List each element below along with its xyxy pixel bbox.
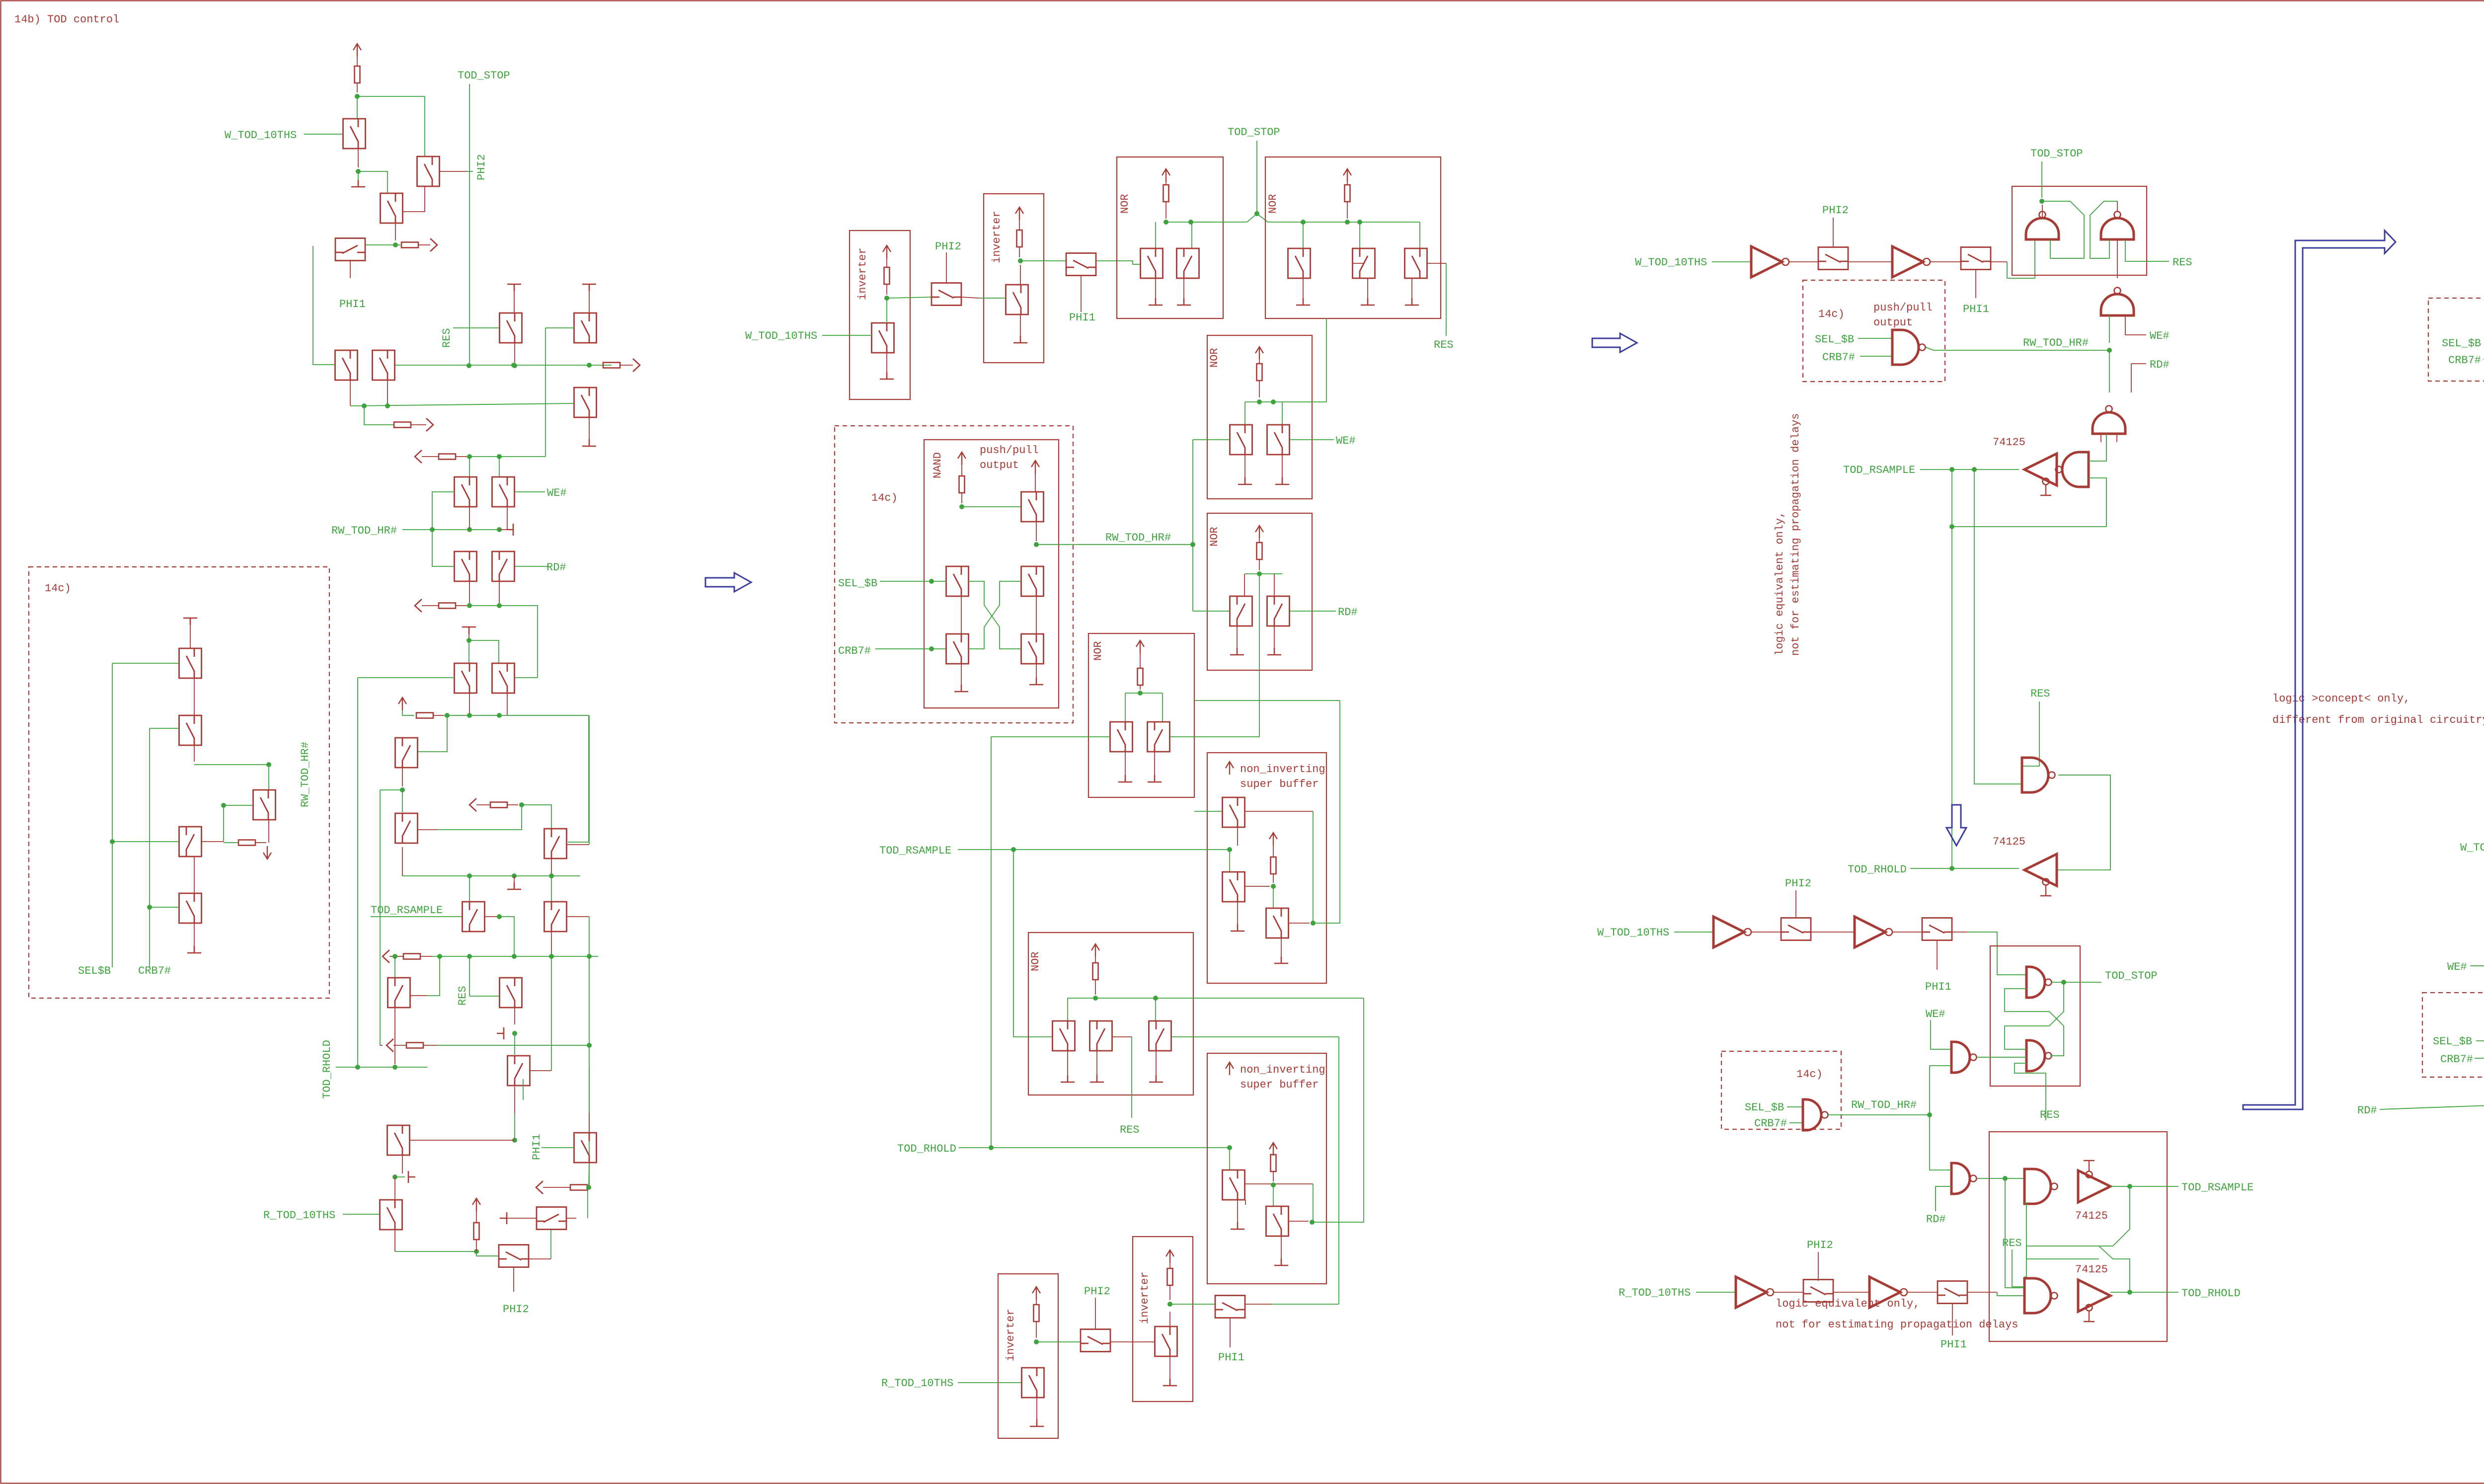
svg-text:PHI2: PHI2 xyxy=(1785,877,1811,890)
junction xyxy=(1949,524,1954,529)
wire xyxy=(1789,1122,1803,1123)
wire xyxy=(1274,574,1275,596)
wire xyxy=(2089,434,2106,461)
wire xyxy=(1282,455,1283,477)
wire to RES xyxy=(1446,263,1447,336)
wire xyxy=(1789,261,1818,262)
wire xyxy=(1281,938,1282,956)
wire to Q18 xyxy=(418,715,447,752)
wire xyxy=(350,380,351,406)
svg-text:14c): 14c) xyxy=(1796,1068,1823,1081)
wire xyxy=(1019,247,1020,257)
transistor Q29 xyxy=(574,1133,597,1163)
wire xyxy=(194,745,195,762)
wire xyxy=(1169,1263,1170,1268)
svg-text:WE#: WE# xyxy=(547,487,567,499)
wire xyxy=(1229,850,1230,872)
wire xyxy=(1274,626,1275,649)
resistor R27 xyxy=(1271,857,1276,874)
svg-text:SEL_$B: SEL_$B xyxy=(2433,1035,2472,1048)
wire xyxy=(1169,1356,1170,1379)
transistor Q54 xyxy=(1141,248,1163,278)
wire xyxy=(1273,1172,1274,1181)
junction xyxy=(437,954,442,959)
svg-text:RES: RES xyxy=(2002,1237,2022,1250)
wire Q2 to Q3 xyxy=(402,186,425,212)
transistor Q12 xyxy=(492,477,515,507)
svg-text:PHI2: PHI2 xyxy=(1084,1285,1110,1298)
wire TOD_RHOLD vertical xyxy=(991,737,992,1148)
wire xyxy=(1774,1292,1803,1293)
wire xyxy=(467,171,473,172)
wire Q2 gate xyxy=(440,171,467,172)
wire xyxy=(468,634,469,640)
transistor Q57 xyxy=(1353,248,1375,278)
off-page arrow xyxy=(536,1181,543,1194)
wire xyxy=(1930,1115,1951,1170)
wire xyxy=(2042,205,2043,217)
VDD pull-up arrow xyxy=(1226,762,1234,775)
svg-text:TOD_RHOLD: TOD_RHOLD xyxy=(321,1040,333,1099)
wire TOD_RSAMPLE xyxy=(1920,469,2019,470)
svg-text:not for estimating propagation: not for estimating propagation delays xyxy=(1789,413,1802,656)
wire xyxy=(1303,278,1304,298)
wire xyxy=(2117,201,2118,212)
junction xyxy=(512,873,517,878)
ground xyxy=(1296,298,1310,305)
wire xyxy=(1125,752,1126,775)
junction xyxy=(1138,691,1143,696)
junction xyxy=(549,954,554,959)
wire Q21 out xyxy=(567,844,589,845)
transistor Q94 PHI2 pass xyxy=(1781,918,1811,940)
wire xyxy=(961,465,962,476)
wire W_TOD_10THS to Q50 gate xyxy=(822,335,872,336)
svg-text:NOR: NOR xyxy=(1119,194,1131,214)
wire xyxy=(358,149,359,167)
svg-text:RW_TOD_HR#: RW_TOD_HR# xyxy=(331,525,397,537)
wire xyxy=(1259,559,1260,570)
svg-text:R_TOD_10THS: R_TOD_10THS xyxy=(263,1209,335,1222)
wire xyxy=(507,1218,537,1219)
junction xyxy=(512,954,517,959)
wire xyxy=(1095,957,1096,963)
wire xyxy=(1166,222,1222,223)
dashed box 14c xyxy=(29,567,329,998)
wire xyxy=(1067,998,1068,1021)
flow arrow down xyxy=(1946,805,1966,846)
wire xyxy=(1245,401,1326,402)
svg-text:TOD_RHOLD: TOD_RHOLD xyxy=(1848,863,1907,876)
wire xyxy=(545,328,546,457)
wire xyxy=(469,956,470,996)
svg-text:RES: RES xyxy=(457,986,469,1006)
terminator bar xyxy=(500,1212,507,1224)
wire CRB7# to Q66 gate xyxy=(875,648,946,649)
svg-text:super buffer: super buffer xyxy=(1240,778,1319,790)
wire xyxy=(1281,1236,1282,1258)
junction xyxy=(497,914,502,919)
junction xyxy=(1949,467,1954,472)
wire xyxy=(551,956,552,1071)
transistor Q21 xyxy=(544,829,567,859)
resistor R23 xyxy=(1345,185,1350,202)
NAND gate U16 xyxy=(2026,967,2052,998)
transistor Q16 xyxy=(455,663,477,693)
transistor Q13 xyxy=(455,551,477,581)
junction xyxy=(1301,220,1306,225)
wire xyxy=(1347,202,1348,219)
wire xyxy=(514,1087,515,1113)
wire down to NOR4 xyxy=(1013,850,1052,1037)
wire xyxy=(1272,1304,1339,1305)
wire xyxy=(2484,359,2484,360)
VDD pull-up arrow xyxy=(1162,169,1170,182)
resistor R21 xyxy=(1017,230,1022,247)
wire xyxy=(1095,1298,1096,1329)
wire vertical xyxy=(380,790,381,1045)
VDD pull-up arrow xyxy=(1255,347,1263,360)
NAND block box xyxy=(924,440,1059,708)
wire xyxy=(433,715,444,716)
transistor Q45 xyxy=(179,893,202,923)
wire buffer2 output xyxy=(1312,1222,1364,1223)
wire into latch xyxy=(2007,239,2035,278)
resistor R9 xyxy=(403,954,420,959)
svg-text:14c): 14c) xyxy=(45,582,71,595)
NAND gate U7b xyxy=(1803,1099,1828,1130)
wire cross xyxy=(2099,1246,2130,1292)
wire xyxy=(357,96,358,119)
wire cross couple xyxy=(2024,1186,2130,1277)
svg-text:R_TOD_10THS: R_TOD_10THS xyxy=(881,1377,953,1390)
wire xyxy=(427,956,440,996)
off-page arrow xyxy=(469,798,476,811)
NOR block box RD xyxy=(1207,513,1312,670)
wire xyxy=(1290,611,1336,612)
junction xyxy=(393,242,398,247)
resistor R2 xyxy=(401,242,418,248)
wire xyxy=(620,365,633,366)
junction xyxy=(392,1065,397,1070)
svg-text:RD#: RD# xyxy=(2150,359,2170,371)
off-page arrow xyxy=(383,950,389,963)
junction xyxy=(467,954,472,959)
resistor R1 xyxy=(355,66,360,83)
wire xyxy=(1095,980,1096,995)
wire xyxy=(422,456,439,457)
svg-text:non_inverting: non_inverting xyxy=(1240,1064,1325,1076)
VDD pull-up arrow xyxy=(1166,1250,1174,1263)
wire xyxy=(194,678,195,715)
transistor Q25 xyxy=(380,1200,402,1230)
wire row xyxy=(402,875,580,876)
svg-text:RD#: RD# xyxy=(1338,606,1358,619)
SR latch box xyxy=(1989,1132,2167,1341)
junction xyxy=(1164,220,1168,225)
wire xyxy=(499,581,500,606)
wire cross xyxy=(968,581,1021,649)
svg-text:TOD_STOP: TOD_STOP xyxy=(458,70,510,82)
wire to Q16 gate xyxy=(358,677,455,678)
transistor Q81 PHI1 pass xyxy=(1215,1296,1245,1318)
VDD pull-up arrow xyxy=(1226,1062,1234,1075)
wire xyxy=(567,1218,576,1219)
svg-text:logic >concept< only,: logic >concept< only, xyxy=(2272,693,2410,705)
wire xyxy=(469,581,470,606)
wire xyxy=(456,456,467,457)
inverter block box xyxy=(998,1274,1058,1438)
wire TOD_STOP xyxy=(2041,161,2042,198)
ground xyxy=(1118,775,1132,782)
wire Q4 to Q7 gate xyxy=(313,246,335,365)
ground xyxy=(1090,1075,1104,1082)
junction xyxy=(959,504,964,509)
wire xyxy=(437,1045,589,1046)
svg-text:RES: RES xyxy=(2040,1109,2060,1121)
svg-text:RD#: RD# xyxy=(2357,1104,2377,1117)
wire xyxy=(1125,693,1163,694)
resistor R22 xyxy=(1164,185,1169,202)
wire Q20 gate xyxy=(418,829,437,830)
wire xyxy=(1347,182,1348,185)
wire xyxy=(1273,874,1274,883)
wire xyxy=(1427,263,1446,264)
wire RES to Q5 gate xyxy=(453,327,499,328)
wire xyxy=(946,252,947,283)
wire xyxy=(543,1187,570,1188)
wire xyxy=(402,1155,403,1173)
junction xyxy=(266,762,271,767)
VDD pull-up arrow xyxy=(1269,1143,1277,1156)
flow arrow between columns xyxy=(1592,333,1637,352)
svg-text:NOR: NOR xyxy=(1208,348,1221,368)
wire xyxy=(522,805,551,830)
resistor R7 xyxy=(416,713,433,718)
wire xyxy=(1096,1051,1097,1075)
transistor Q55 xyxy=(1177,248,1199,278)
svg-text:R_TOD_10THS: R_TOD_10THS xyxy=(1619,1287,1691,1299)
NAND gate U4 xyxy=(2101,212,2134,240)
junction xyxy=(1310,1220,1315,1225)
resistor R31 xyxy=(1167,1268,1173,1285)
wire xyxy=(112,841,179,842)
junction xyxy=(884,296,889,301)
junction xyxy=(467,603,472,608)
ground xyxy=(1231,924,1244,931)
junction xyxy=(221,803,226,808)
svg-text:RD#: RD# xyxy=(1926,1213,1946,1226)
svg-text:PHI1: PHI1 xyxy=(1963,303,1989,315)
terminator bar xyxy=(408,1171,415,1183)
wire xyxy=(1036,1300,1037,1305)
wire xyxy=(514,1113,515,1140)
wire xyxy=(476,1211,477,1223)
svg-text:NAND: NAND xyxy=(931,452,944,478)
svg-text:output: output xyxy=(980,459,1019,471)
wire xyxy=(499,917,514,956)
wire xyxy=(456,605,467,606)
transistor Q63 xyxy=(1021,492,1044,522)
junction xyxy=(929,579,934,584)
ground xyxy=(1029,678,1043,685)
ground below Q10 xyxy=(582,439,596,446)
wire WE# xyxy=(1931,1020,1951,1049)
wire xyxy=(1937,940,1938,970)
wire xyxy=(514,1008,515,1024)
wire xyxy=(402,790,403,812)
dashed box 14c xyxy=(1803,280,1945,382)
wire xyxy=(1171,1036,1339,1037)
resistor R3 xyxy=(603,363,620,368)
transistor Q51 PHI2 pass xyxy=(931,283,961,306)
wire W_TOD_10THS to Q1 gate xyxy=(304,134,343,135)
VDD pull-up arrow xyxy=(1032,1287,1040,1300)
transistor Q31 xyxy=(500,978,522,1008)
NOR block box xyxy=(1088,633,1194,797)
ground xyxy=(1061,1075,1075,1082)
inverter block box xyxy=(984,194,1044,363)
svg-text:WE#: WE# xyxy=(2447,961,2467,973)
svg-text:PHI1: PHI1 xyxy=(1218,1351,1244,1364)
wire xyxy=(1191,222,1212,223)
wire TOD_RHOLD out xyxy=(2110,1292,2178,1293)
wire xyxy=(587,1187,589,1188)
wire xyxy=(194,764,269,765)
junction xyxy=(467,873,472,878)
svg-text:14c): 14c) xyxy=(1818,308,1845,320)
node A junction xyxy=(355,94,360,99)
wire xyxy=(194,923,195,946)
wire xyxy=(961,664,962,688)
wire xyxy=(469,640,499,663)
NAND gate U3 xyxy=(2026,212,2059,240)
wire xyxy=(1273,1185,1274,1207)
wire RW_TOD_HR# xyxy=(1934,350,2109,351)
junction xyxy=(1153,996,1158,1001)
wire xyxy=(1036,1341,1081,1342)
junction xyxy=(1271,399,1276,404)
svg-text:RES: RES xyxy=(2030,688,2050,700)
svg-text:PHI1: PHI1 xyxy=(339,298,366,311)
svg-text:74125: 74125 xyxy=(2075,1210,2108,1222)
transistor Q69 xyxy=(1148,722,1170,752)
inverter U14 xyxy=(1713,917,1751,947)
VDD pull-up arrow xyxy=(958,452,966,465)
wire xyxy=(1245,573,1282,574)
wire xyxy=(1140,685,1141,690)
wire to WE# xyxy=(515,491,545,492)
wire xyxy=(394,1230,395,1251)
svg-text:logic equivalent only,: logic equivalent only, xyxy=(1774,512,1786,656)
74125 buffer U8 xyxy=(2024,454,2057,495)
wire xyxy=(224,842,238,843)
svg-text:W_TOD_10THS: W_TOD_10THS xyxy=(1597,927,1669,939)
wire to Q61 gate xyxy=(1193,611,1230,612)
wire node A to Q2 xyxy=(357,96,425,156)
junction xyxy=(2107,348,2112,353)
wire cross couple xyxy=(2042,201,2084,258)
junction xyxy=(474,1249,479,1254)
junction xyxy=(1345,220,1350,225)
wire Q23 gate xyxy=(567,916,589,917)
wire to RES xyxy=(1131,1037,1132,1118)
svg-text:RW_TOD_HR#: RW_TOD_HR# xyxy=(2023,337,2089,349)
wire xyxy=(395,1251,499,1256)
wire cross couple xyxy=(2090,201,2117,258)
wire xyxy=(395,223,396,240)
transistor Q73 xyxy=(1053,1021,1075,1051)
junction xyxy=(1190,542,1195,547)
inverter U2 xyxy=(1892,246,1930,277)
svg-text:74125: 74125 xyxy=(2075,1263,2108,1276)
junction xyxy=(392,1174,397,1179)
wire xyxy=(1751,932,1781,933)
ground xyxy=(183,618,197,625)
wire xyxy=(1858,338,1892,339)
wire xyxy=(1860,356,1892,357)
wire xyxy=(437,805,522,830)
wire xyxy=(1169,1312,1170,1327)
wire xyxy=(961,596,962,634)
VDD pull-up arrow xyxy=(472,1198,480,1211)
VDD pull-up arrow xyxy=(1136,640,1144,653)
VDD pull-up arrow xyxy=(1269,833,1277,846)
wire to Q11 gate xyxy=(432,492,455,530)
wire xyxy=(1036,596,1037,634)
wire xyxy=(1290,439,1334,440)
wire R_TOD_10THS to Q25 xyxy=(343,1214,380,1215)
transistor Q26 xyxy=(499,1245,529,1267)
74125 buffer U22 xyxy=(2078,1280,2110,1322)
transistor Q4 xyxy=(335,238,365,261)
wire xyxy=(1068,998,1364,999)
wire xyxy=(1020,265,1021,285)
junction xyxy=(2061,980,2066,985)
svg-text:different from original circui: different from original circuitry xyxy=(2272,714,2484,726)
junction xyxy=(512,1031,517,1036)
resistor R6 xyxy=(439,603,456,609)
junction xyxy=(2003,1176,2008,1181)
flow arrow between columns xyxy=(705,573,751,592)
junction xyxy=(929,646,934,651)
junction xyxy=(1018,258,1023,263)
transistor Q59 xyxy=(1230,425,1252,455)
wire cross couple xyxy=(2005,989,2064,1056)
ground xyxy=(1231,1222,1244,1229)
wire xyxy=(2131,364,2132,392)
ground xyxy=(1149,298,1163,305)
junction xyxy=(497,454,502,459)
wire xyxy=(1795,890,1796,918)
wire RES xyxy=(2022,702,2039,766)
wire xyxy=(2024,1202,2026,1203)
junction xyxy=(356,169,361,174)
wire xyxy=(1411,278,1412,298)
svg-text:RES: RES xyxy=(1434,339,1454,351)
resistor R24 xyxy=(1257,364,1262,381)
wire xyxy=(2470,965,2484,966)
wire cross couple xyxy=(2026,1203,2099,1259)
wire xyxy=(1081,276,1082,312)
inverter U1 xyxy=(1751,246,1789,277)
VDD pull-up arrow xyxy=(1031,461,1039,473)
wire xyxy=(1273,886,1274,909)
svg-text:super buffer: super buffer xyxy=(1240,1079,1319,1091)
svg-text:RES: RES xyxy=(2173,256,2192,269)
junction xyxy=(519,802,524,807)
svg-text:NOR: NOR xyxy=(1029,951,1042,971)
